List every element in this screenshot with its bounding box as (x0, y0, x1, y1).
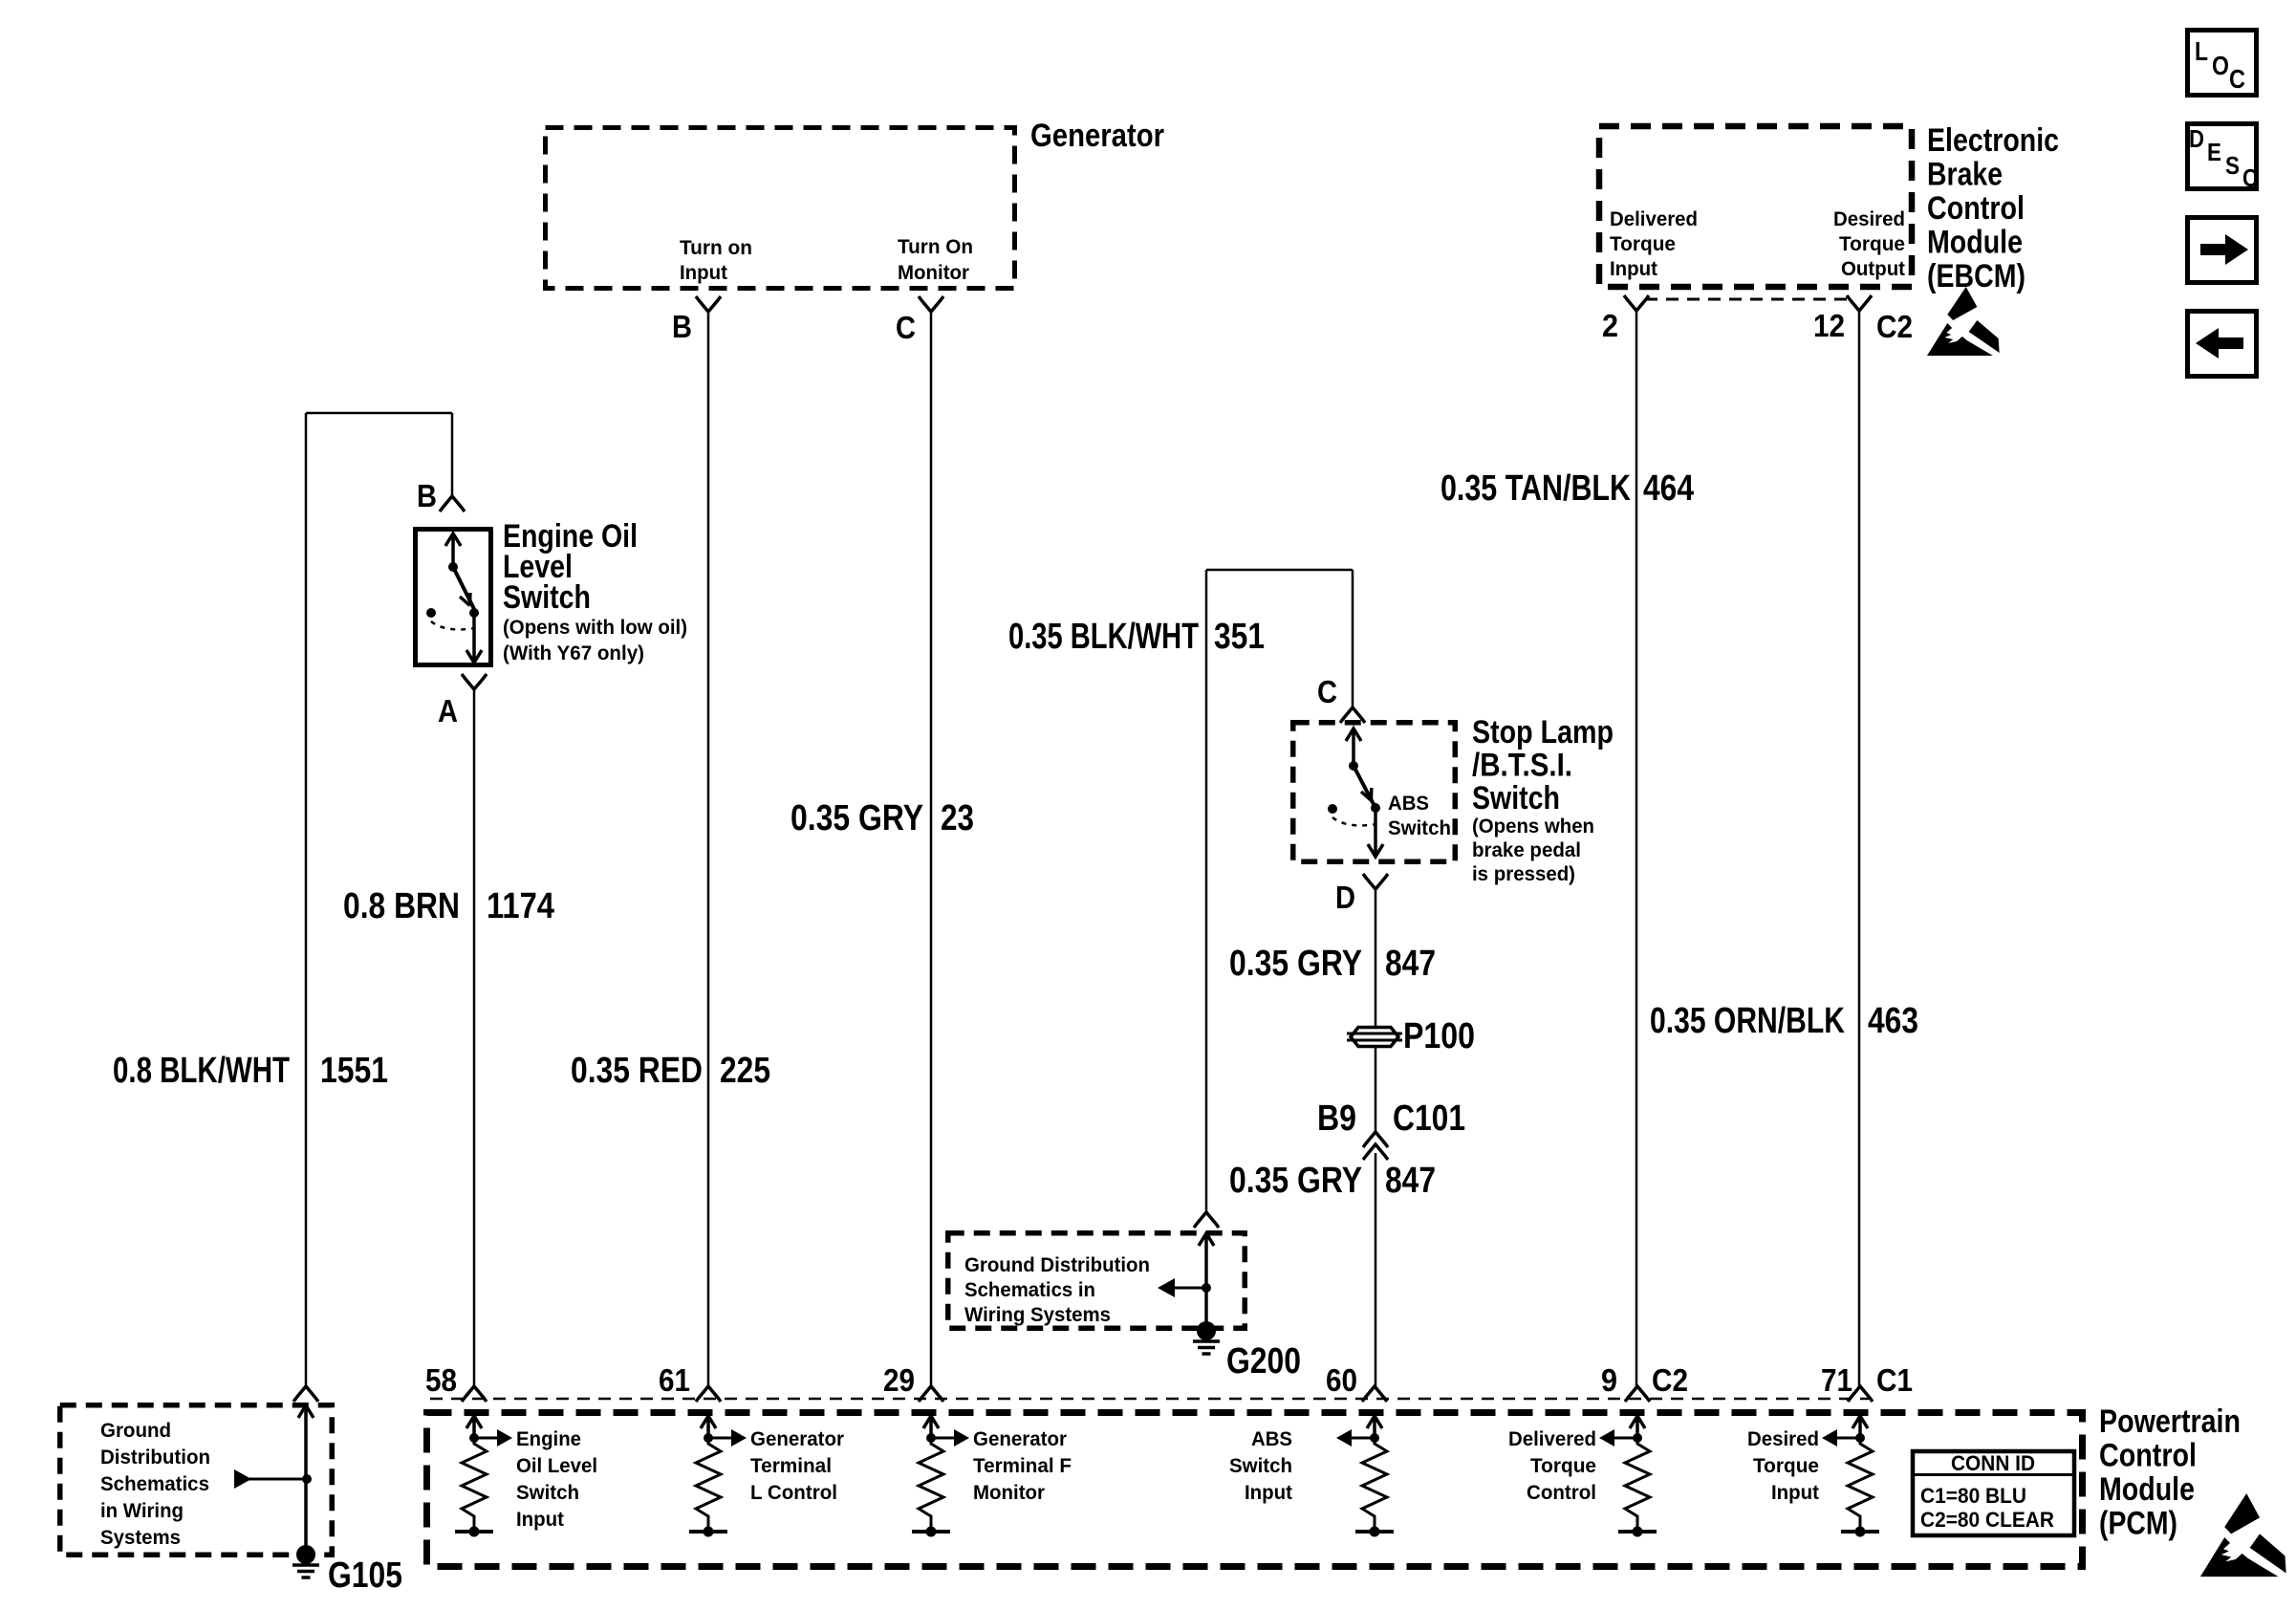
svg-text:in Wiring: in Wiring (100, 1499, 184, 1522)
svg-text:61: 61 (659, 1362, 690, 1398)
svg-text:60: 60 (1326, 1362, 1357, 1398)
G105 reference arrow (right) (234, 1469, 312, 1489)
svg-text:Torque: Torque (1839, 232, 1905, 255)
svg-text:Control: Control (1527, 1481, 1596, 1504)
EBCM: Delivered Torque Input terminal label (1610, 207, 1698, 280)
svg-text:464: 464 (1643, 468, 1694, 509)
svg-text:E: E (2207, 138, 2221, 166)
svg-text:C2=80 CLEAR: C2=80 CLEAR (1920, 1508, 2054, 1532)
svg-text:Control: Control (1927, 190, 2025, 227)
resistor: PCM Generator Terminal L Control (689, 1416, 747, 1537)
svg-text:O: O (2212, 51, 2229, 80)
terminal chevron PCM pin 71 (1848, 1386, 1873, 1402)
svg-text:/B.T.S.I.: /B.T.S.I. (1472, 748, 1572, 784)
oil switch: pivot dot (448, 562, 458, 572)
wire: 0.8 BRN 1174 down to PCM pin 58 (473, 689, 476, 1388)
svg-text:0.8 BRN: 0.8 BRN (343, 886, 460, 926)
svg-text:Systems: Systems (100, 1526, 181, 1549)
svg-text:D: D (1335, 880, 1355, 915)
svg-text:Distribution: Distribution (100, 1446, 210, 1469)
svg-text:29: 29 (883, 1362, 915, 1398)
svg-text:Turn on: Turn on (680, 236, 752, 259)
PCM component label (2099, 1403, 2241, 1542)
svg-text:Oil Level: Oil Level (516, 1454, 597, 1477)
svg-text:G105: G105 (328, 1556, 402, 1596)
resistor: PCM Desired Torque Input (1822, 1416, 1879, 1537)
svg-text:Desired: Desired (1833, 207, 1905, 230)
svg-text:(With Y67 only): (With Y67 only) (503, 642, 644, 664)
terminal chevron EBCM pin 12 (1847, 295, 1872, 311)
terminal chevron PCM pin 9 (1625, 1386, 1650, 1402)
stop lamp switch: open contact dot (1328, 804, 1337, 814)
terminal chevron PCM pin 60 (1362, 1386, 1387, 1402)
EBCM: Desired Torque Output terminal label (1833, 207, 1905, 280)
terminal chevron stop lamp pin D (1363, 874, 1388, 889)
svg-text:351: 351 (1214, 617, 1265, 657)
wire: down to stop lamp switch pin C (1352, 570, 1354, 707)
svg-text:A: A (438, 693, 458, 729)
svg-text:C: C (1317, 674, 1337, 709)
stop lamp switch: stationary contact dot (1371, 803, 1380, 813)
svg-text:0.35 BLK/WHT: 0.35 BLK/WHT (1008, 617, 1199, 657)
terminal chevron EBCM pin 2 (1624, 295, 1649, 311)
svg-text:Terminal F: Terminal F (973, 1454, 1072, 1477)
svg-text:Schematics: Schematics (100, 1472, 209, 1495)
svg-text:Electronic: Electronic (1927, 122, 2059, 159)
terminal chevron generator pin C (919, 296, 943, 312)
svg-text:ABS: ABS (1251, 1427, 1292, 1450)
G200 ground distribution dashed box (948, 1233, 1245, 1329)
svg-text:B9: B9 (1317, 1099, 1356, 1139)
svg-text:Turn On: Turn On (898, 235, 973, 258)
svg-text:Input: Input (680, 261, 727, 284)
EBCM component label (1927, 122, 2059, 294)
svg-text:Powertrain: Powertrain (2099, 1403, 2241, 1440)
G105 box entry arrow and wire to ground (298, 1405, 314, 1555)
terminal chevron above G105 box (293, 1386, 318, 1402)
connector label B9 C101 (1317, 1099, 1465, 1139)
svg-text:0.35 ORN/BLK: 0.35 ORN/BLK (1650, 1001, 1845, 1041)
stop lamp switch: dashed travel arc (1332, 817, 1376, 825)
svg-text:C: C (2229, 64, 2245, 94)
PCM internal label: Engine Oil Level Switch Input (516, 1427, 597, 1531)
wire: branch down to oil switch pin B (451, 413, 454, 496)
terminal chevron PCM pin 58 (462, 1386, 487, 1402)
svg-text:Control: Control (2099, 1438, 2197, 1474)
stop lamp switch component label (1472, 714, 1614, 885)
svg-text:Schematics in: Schematics in (964, 1278, 1095, 1301)
terminal chevron above G200 box (1194, 1212, 1219, 1228)
terminal chevron at oil switch pin B (440, 496, 465, 511)
svg-text:B: B (672, 309, 692, 344)
wire: P100 to C101 (1375, 1047, 1377, 1131)
CONN ID table (1913, 1451, 2074, 1535)
wire: 0.35 GRY 847 C101 to PCM 60 (1375, 1153, 1377, 1388)
stop lamp switch: movable blade with arrowhead (1354, 766, 1375, 808)
svg-text:0.35 GRY: 0.35 GRY (791, 798, 923, 838)
stop lamp switch: down arrow to pin D (1368, 808, 1383, 857)
svg-text:Switch: Switch (1472, 780, 1560, 816)
svg-text:23: 23 (941, 798, 974, 838)
svg-text:C: C (896, 310, 916, 345)
wire label 0.35 RED 225 (571, 1051, 770, 1091)
wire: stop lamp feed horizontal (1206, 569, 1353, 572)
svg-text:Input: Input (516, 1508, 564, 1531)
svg-text:Switch: Switch (516, 1481, 579, 1504)
ground symbol G105 (296, 1545, 315, 1564)
svg-text:L: L (2195, 36, 2208, 66)
powertrain control module dashed box (427, 1413, 2083, 1567)
svg-text:(EBCM): (EBCM) (1927, 258, 2025, 294)
oil switch: dashed travel arc (431, 621, 475, 629)
svg-text:C: C (2242, 163, 2258, 192)
DESC icon box (2188, 124, 2259, 193)
engine oil level switch label (503, 518, 687, 664)
wire label 0.35 BLK/WHT 351 (1008, 617, 1265, 657)
svg-text:Monitor: Monitor (973, 1481, 1046, 1504)
svg-text:0.35 RED: 0.35 RED (571, 1051, 703, 1091)
svg-text:Desired: Desired (1747, 1427, 1819, 1450)
terminal chevron generator pin B (696, 296, 721, 312)
ABS Switch inner label (1388, 792, 1451, 839)
stop lamp switch: pivot dot (1349, 761, 1358, 771)
svg-text:L Control: L Control (750, 1481, 837, 1504)
generator: Turn On Monitor terminal label (898, 235, 973, 284)
svg-text:Module: Module (2099, 1471, 2195, 1508)
LOC icon box (2188, 31, 2257, 96)
svg-text:(Opens with low oil): (Opens with low oil) (503, 616, 687, 639)
terminal chevron stop lamp pin C (1340, 707, 1365, 723)
resistor: PCM ABS Switch Input (1336, 1416, 1394, 1537)
oil switch: lower contact down arrow to pin A (466, 613, 482, 663)
svg-text:Input: Input (1245, 1481, 1292, 1504)
svg-text:CONN ID: CONN ID (1951, 1451, 2035, 1475)
terminal chevron at oil switch pin A (462, 674, 487, 689)
forward arrow icon box (2188, 218, 2257, 283)
svg-text:0.8 BLK/WHT: 0.8 BLK/WHT (113, 1051, 290, 1091)
wire label 0.8 BLK/WHT 1551 (113, 1051, 388, 1091)
terminal chevron PCM pin 29 (919, 1386, 943, 1402)
oil switch: movable blade with arrowhead (453, 567, 474, 609)
svg-text:0.35 TAN/BLK: 0.35 TAN/BLK (1440, 468, 1631, 509)
stop lamp /B.T.S.I. switch dashed box (1293, 723, 1456, 862)
engine oil level switch box (416, 530, 491, 665)
svg-text:Engine: Engine (516, 1427, 581, 1450)
svg-text:B: B (417, 478, 437, 513)
svg-text:is pressed): is pressed) (1472, 862, 1575, 885)
svg-text:9: 9 (1601, 1362, 1617, 1398)
svg-text:Torque: Torque (1610, 232, 1676, 255)
svg-text:Torque: Torque (1530, 1454, 1596, 1477)
terminal chevron PCM pin 61 (696, 1386, 721, 1402)
svg-text:C2: C2 (1652, 1362, 1688, 1398)
svg-text:Torque: Torque (1753, 1454, 1819, 1477)
wire: 0.35 GRY 847 pin D to P100 (1375, 889, 1377, 1027)
generator dashed box (546, 128, 1015, 289)
PCM internal label: Delivered Torque Control (1508, 1427, 1596, 1504)
wire: 0.35 GRY 23 generator C to PCM 29 (930, 312, 933, 1388)
svg-text:1551: 1551 (320, 1051, 388, 1091)
svg-text:Stop Lamp: Stop Lamp (1472, 714, 1614, 751)
back arrow icon box (2188, 312, 2257, 377)
svg-text:Input: Input (1610, 257, 1657, 280)
PCM internal label: Generator Terminal L Control (750, 1427, 845, 1504)
wire label 0.8 BRN 1174 (343, 886, 554, 926)
svg-text:ABS: ABS (1388, 792, 1429, 815)
svg-text:847: 847 (1385, 944, 1436, 984)
svg-text:Generator: Generator (750, 1427, 845, 1450)
svg-text:C1=80 BLU: C1=80 BLU (1920, 1484, 2026, 1508)
resistor: PCM Delivered Torque Control (1599, 1416, 1657, 1537)
svg-text:847: 847 (1385, 1161, 1436, 1201)
G105 box text (100, 1419, 210, 1549)
G200 reference arrow (left) (1158, 1278, 1211, 1297)
G200 box text (964, 1253, 1150, 1326)
EBCM dashed box (1599, 126, 1912, 287)
svg-text:Monitor: Monitor (898, 261, 970, 284)
wire: 0.35 RED 225 generator B to PCM 61 (707, 312, 710, 1388)
grommet P100 symbol (1347, 1028, 1402, 1047)
svg-text:Ground: Ground (100, 1419, 171, 1442)
wire label 0.35 GRY 847 (lower) (1229, 1161, 1436, 1201)
PCM ESD warning symbol (2200, 1493, 2286, 1577)
PCM internal label: ABS Switch Input (1229, 1427, 1292, 1504)
svg-text:G200: G200 (1226, 1341, 1301, 1382)
svg-text:58: 58 (425, 1362, 457, 1398)
PCM harness thin dashed line (430, 1398, 1869, 1401)
svg-text:0.35 GRY: 0.35 GRY (1229, 1161, 1362, 1201)
stop lamp switch: contact entry arrow (1346, 729, 1361, 766)
wire: 0.35 TAN/BLK 464 EBCM 2 to PCM 9 (1635, 311, 1638, 1388)
wire: 0.8 BLK/WHT 1551 vertical to G105 (305, 413, 308, 1386)
svg-text:Input: Input (1771, 1481, 1819, 1504)
svg-text:Switch: Switch (1229, 1454, 1292, 1477)
wire: 0.35 ORN/BLK 463 EBCM 12 to PCM 71 (1858, 311, 1861, 1388)
G200 box entry arrow and wire to ground (1199, 1233, 1214, 1331)
svg-text:0.35 GRY: 0.35 GRY (1229, 944, 1362, 984)
svg-text:Terminal: Terminal (750, 1454, 832, 1477)
svg-text:Brake: Brake (1927, 157, 2003, 193)
generator: Turn on Input terminal label (680, 236, 752, 284)
connector C101 double chevron (1363, 1132, 1388, 1147)
PCM internal label: Desired Torque Input (1747, 1427, 1819, 1504)
svg-text:C2: C2 (1876, 309, 1913, 344)
svg-text:Ground Distribution: Ground Distribution (964, 1253, 1150, 1276)
wire label 0.35 GRY 847 (upper) (1229, 944, 1436, 984)
svg-text:Generator: Generator (1030, 118, 1164, 154)
wire label 0.35 ORN/BLK 463 (1650, 1001, 1918, 1041)
svg-text:Switch: Switch (1388, 816, 1451, 839)
svg-text:D: D (2189, 124, 2204, 153)
oil switch: contact entry arrow from pin B (445, 533, 461, 567)
resistor: PCM Engine Oil Level Switch Input (455, 1416, 512, 1537)
resistor: PCM Generator Terminal F Monitor (912, 1416, 969, 1537)
svg-text:225: 225 (720, 1051, 770, 1091)
svg-text:(PCM): (PCM) (2099, 1506, 2177, 1542)
EBCM ESD warning symbol (1927, 287, 2000, 356)
svg-text:brake pedal: brake pedal (1472, 838, 1581, 861)
svg-text:1174: 1174 (487, 886, 554, 926)
oil switch: stationary contact dot (469, 608, 479, 618)
svg-text:C101: C101 (1393, 1099, 1465, 1139)
G105 ground distribution dashed box (60, 1405, 333, 1556)
svg-text:71: 71 (1821, 1362, 1852, 1398)
svg-text:Output: Output (1841, 257, 1905, 280)
svg-text:C1: C1 (1876, 1362, 1913, 1398)
svg-text:P100: P100 (1403, 1016, 1475, 1056)
ground symbol G200 (1197, 1321, 1216, 1340)
svg-text:2: 2 (1602, 308, 1618, 343)
wire label 0.35 GRY 23 (791, 798, 974, 838)
svg-text:S: S (2225, 151, 2240, 180)
wire: 0.35 BLK/WHT 351 down to G200 (1205, 570, 1208, 1212)
svg-text:463: 463 (1868, 1001, 1918, 1041)
wire: left ground run 0.8 BLK/WHT top horizontal (306, 412, 452, 415)
svg-text:(Opens when: (Opens when (1472, 815, 1594, 838)
EBCM connector C2 dashed tie line (1645, 298, 1851, 301)
svg-text:Module: Module (1927, 225, 2023, 261)
oil switch: open-position contact dot (426, 608, 436, 618)
svg-text:Generator: Generator (973, 1427, 1068, 1450)
svg-text:Delivered: Delivered (1508, 1427, 1596, 1450)
wire label 0.35 TAN/BLK 464 (1440, 468, 1694, 509)
PCM internal label: Generator Terminal F Monitor (973, 1427, 1072, 1504)
svg-text:Wiring Systems: Wiring Systems (964, 1303, 1111, 1326)
svg-text:Switch: Switch (503, 579, 591, 616)
svg-text:Delivered: Delivered (1610, 207, 1698, 230)
svg-text:12: 12 (1813, 308, 1845, 343)
